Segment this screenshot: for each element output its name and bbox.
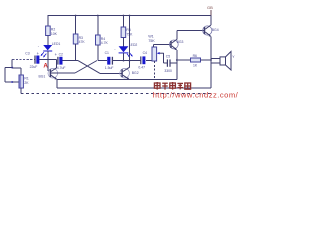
wire R4 top lead (97, 16, 99, 36)
capacitor C4 (130, 51, 153, 69)
wire BG1 collector up (56, 60, 58, 68)
wire R5 top lead (122, 16, 124, 28)
svg-text:3300: 3300 (164, 69, 172, 73)
svg-text:C4: C4 (143, 51, 147, 55)
transistor BG4 (203, 25, 219, 37)
svg-text:1K: 1K (193, 64, 198, 68)
svg-text:4.7K: 4.7K (101, 41, 109, 45)
svg-text:10K: 10K (51, 32, 58, 36)
svg-text:LED2: LED2 (129, 43, 138, 47)
svg-text:BG3: BG3 (177, 40, 184, 44)
microphone B (5, 67, 13, 83)
wire cross diagonal C2 side to BG2 base (78, 61, 100, 74)
svg-text:BG2: BG2 (132, 71, 139, 75)
resistor R3 (73, 34, 78, 44)
svg-text:4.7uF: 4.7uF (57, 66, 66, 70)
node rail junction R4 (97, 15, 99, 17)
capacitor C2 4.7uF (55, 52, 66, 70)
wire node A to BG1 base (47, 60, 49, 71)
wire R2 to LED1 (47, 36, 49, 46)
wire BG2 collector to rail (129, 16, 131, 68)
wire R4 bottom lead (97, 45, 99, 60)
wire LED2 bottom (123, 53, 125, 61)
transistor BG3 (169, 39, 183, 50)
wire R2 top lead (47, 16, 49, 27)
svg-text:75K: 75K (148, 39, 155, 43)
resistor R2 (46, 26, 51, 36)
wire mic top up to C1 line (11, 60, 13, 68)
svg-text:0.47: 0.47 (138, 66, 145, 70)
resistor R1 (19, 68, 29, 88)
wire bus left junction vertical (56, 80, 58, 89)
svg-text:2K: 2K (24, 81, 29, 85)
wire C2 right to R3 junction (63, 59, 78, 61)
resistor R6 (177, 54, 211, 68)
transistor BG1 (39, 68, 58, 80)
watermark text dianzidianlutu pseudo glyphs (154, 82, 190, 90)
node rail junction R3 (75, 15, 77, 17)
wire emitter bus (57, 79, 177, 81)
wire W1 wiper down (163, 53, 165, 63)
wire R1 bottom to ground rail (20, 88, 22, 93)
svg-text:BG4: BG4 (212, 28, 219, 32)
wire BG3 emitter down to bus (176, 50, 178, 80)
wire R5 to LED2 (122, 38, 124, 47)
wire W1 bottom dashed to bus (153, 61, 155, 80)
svg-text:C2: C2 (59, 52, 63, 56)
wire BG4 emitter down to speaker and bus (210, 37, 212, 89)
speaker Y (211, 52, 235, 71)
wire W1 top to BG3 base (153, 43, 170, 45)
svg-text:C5: C5 (166, 55, 170, 59)
wire mic to C1 dashed-faded (12, 59, 34, 61)
capacitor C3 1.5uF (98, 51, 114, 70)
node BG3 emitter R6 (176, 59, 178, 61)
wire R3 top lead (75, 16, 77, 35)
wire R3 bottom lead (75, 44, 77, 60)
node LED2 C3 C4 (123, 60, 125, 62)
wire BG4 collector to rail (210, 16, 212, 26)
resistor R4 (96, 35, 101, 45)
wire cross diagonal R4 side to BG1 base (75, 61, 97, 74)
ground dashed rail (21, 92, 211, 94)
wire LED1 to node A (47, 51, 49, 60)
svg-text:R6: R6 (193, 54, 197, 58)
potentiometer W1 (148, 35, 164, 61)
node rail junction BG2 collector (129, 15, 131, 17)
wire BG3 collector to BG4 base (176, 31, 178, 40)
svg-text:W1: W1 (148, 35, 154, 39)
wire mic bottom to R1 (12, 81, 19, 83)
svg-text:C1: C1 (105, 51, 109, 55)
transistor BG2 (120, 67, 139, 79)
wire C3 to LED2 bottom node (113, 60, 130, 62)
resistor R5 (121, 27, 126, 38)
svg-text:http://www.cndzz.com/: http://www.cndzz.com/ (153, 90, 239, 99)
svg-text:1.5uF: 1.5uF (105, 66, 114, 70)
wire top supply rail (47, 15, 211, 17)
battery GB terminal (210, 10, 212, 16)
node BG2 collector tap (129, 60, 131, 62)
node rail junction R5 (123, 15, 125, 17)
svg-text:47K: 47K (79, 40, 86, 44)
wire mic top to R1 top (12, 67, 21, 69)
LED LED2 (114, 43, 137, 58)
LED LED1 (38, 42, 61, 58)
svg-text:BG1: BG1 (39, 75, 46, 79)
svg-text:GB: GB (207, 5, 213, 10)
capacitor C5 (164, 55, 177, 73)
capacitor C1 22uF input (25, 51, 39, 69)
wire C1 to node A to BG1 collector (40, 59, 57, 61)
svg-text:22uF: 22uF (30, 65, 38, 69)
node BG4 emitter R6 speaker (210, 59, 212, 61)
svg-text:C3: C3 (25, 52, 29, 56)
wire lower return line (57, 87, 211, 89)
svg-text:R1: R1 (24, 76, 28, 80)
svg-text:LED1: LED1 (52, 42, 61, 46)
